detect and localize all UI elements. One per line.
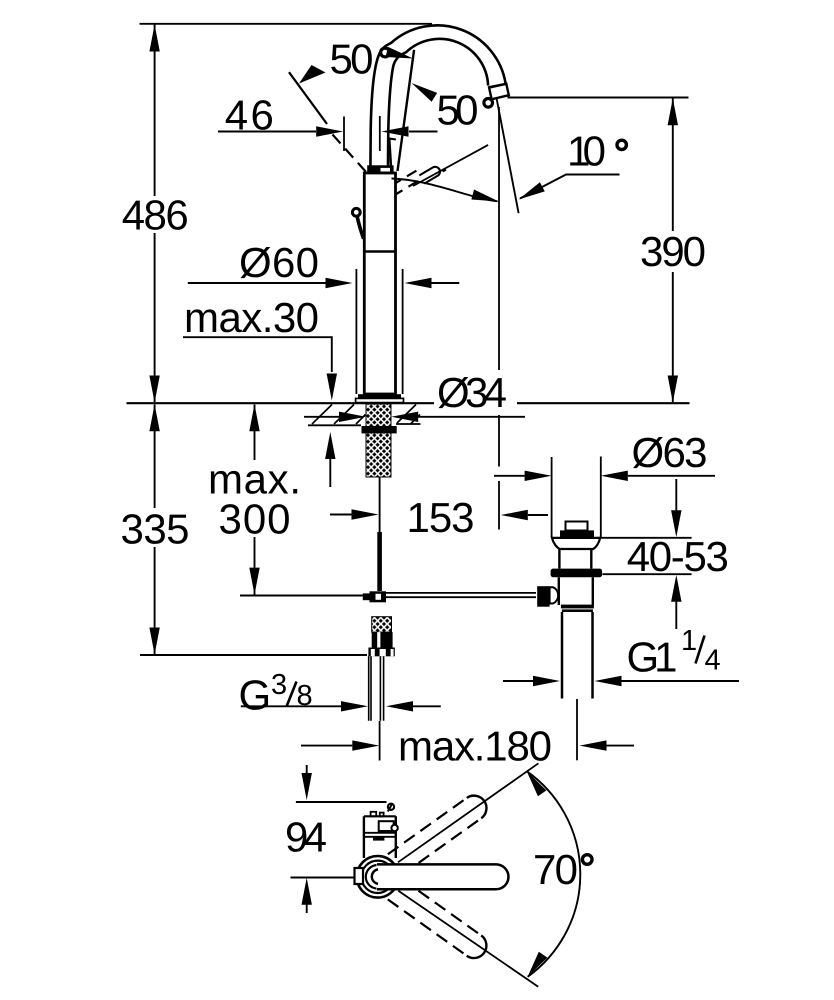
pop-up rod thin upper xyxy=(379,477,381,532)
spout riser tube left edge and outer arc xyxy=(370,25,505,173)
dash dot after tip xyxy=(443,170,446,172)
svg-text:40-53: 40-53 xyxy=(627,533,729,580)
mounting nut xyxy=(362,426,397,433)
body top cap xyxy=(367,165,393,173)
deck hatching left xyxy=(312,405,366,425)
dimension 486 line xyxy=(154,24,156,402)
drain: seal ring xyxy=(551,569,603,578)
dimension 153 xyxy=(330,514,352,516)
94 dimension top arrow xyxy=(306,765,308,775)
lever arm xyxy=(357,217,363,239)
deck hatching right xyxy=(397,405,420,424)
degree ring 70 xyxy=(582,855,592,865)
drain: neck xyxy=(559,549,591,569)
hose 1 xyxy=(369,656,371,720)
inner mechanism xyxy=(379,821,394,831)
outlet centerline xyxy=(498,107,500,530)
deck underside right xyxy=(396,423,421,425)
top extension line xyxy=(140,23,433,25)
max30 lower arrow xyxy=(329,459,331,487)
max300 reference line xyxy=(240,595,363,597)
upper 50 left arc line xyxy=(289,72,327,124)
dashed handle hint right upper edge xyxy=(392,169,421,186)
threaded shank xyxy=(366,404,391,477)
dim60 line xyxy=(188,282,326,284)
drain: lower band 1 xyxy=(561,605,594,609)
handle radius line xyxy=(413,145,488,186)
drain: knob black band xyxy=(560,530,594,537)
drain: side port block xyxy=(537,586,549,607)
spout tip separation line xyxy=(489,84,506,87)
svg-text:335: 335 xyxy=(121,506,190,553)
hose connector base xyxy=(368,648,394,657)
swing arc to outlet xyxy=(392,179,498,202)
svg-text:Ø63: Ø63 xyxy=(632,429,708,476)
rod cross fitting xyxy=(370,591,387,602)
degree ring upper 50 xyxy=(381,48,390,57)
dimension 390 line xyxy=(672,98,674,402)
handle top hook xyxy=(389,139,396,140)
svg-text:1: 1 xyxy=(681,625,697,657)
dashed handle hint right lower edge xyxy=(393,178,423,196)
svg-text:max.180: max.180 xyxy=(398,722,552,769)
hose 2 xyxy=(380,656,383,720)
40-53 upper arrow xyxy=(675,479,677,511)
svg-text:G: G xyxy=(239,672,272,719)
drain: flange xyxy=(552,538,600,549)
dimension max300 line xyxy=(254,405,256,595)
radius line lower xyxy=(398,891,538,987)
aerator tip xyxy=(489,84,509,100)
G 3/8 dim line xyxy=(241,705,341,707)
degree ring 10 xyxy=(617,140,626,149)
drain: lower band 2 xyxy=(562,609,593,612)
handle tilted line B xyxy=(389,138,391,171)
drain: side port inset xyxy=(550,587,559,603)
94 dimension bottom arrow xyxy=(306,904,308,914)
46 tick left xyxy=(343,117,345,152)
body joint line xyxy=(364,250,395,252)
svg-text:G1: G1 xyxy=(627,634,678,681)
10 deg leader xyxy=(520,175,620,199)
water stream line xyxy=(497,99,519,213)
left tab xyxy=(355,868,364,884)
escutcheon circles xyxy=(357,856,399,898)
lever pin curl xyxy=(388,804,394,810)
dimension 335 line xyxy=(154,405,156,655)
drain: pull knob top xyxy=(566,522,588,531)
svg-text:390: 390 xyxy=(640,228,706,275)
svg-text:Ø34: Ø34 xyxy=(437,369,507,416)
dimension max.180 xyxy=(301,745,352,747)
dim63 line xyxy=(494,475,525,477)
svg-text:3: 3 xyxy=(271,669,287,701)
svg-text:4: 4 xyxy=(705,645,721,677)
svg-text:153: 153 xyxy=(407,494,475,541)
390 top reference line xyxy=(508,97,689,99)
svg-text:Ø60: Ø60 xyxy=(239,239,319,286)
hose connector crosshatch block xyxy=(372,617,392,632)
spout riser tube right edge and inner arc xyxy=(388,39,488,173)
46 tick right (centerline) xyxy=(379,116,381,151)
handle dashed down position xyxy=(388,879,492,963)
40-53 lower arrow xyxy=(675,601,677,629)
svg-text:50: 50 xyxy=(437,87,479,134)
deck top line xyxy=(127,402,690,404)
hose connector mid block xyxy=(372,632,393,647)
handle dashed up position xyxy=(388,791,492,875)
outer tube right edge xyxy=(402,269,404,394)
faucet body rectangle xyxy=(364,173,395,394)
max30 leader xyxy=(183,337,332,372)
handle tilted line A xyxy=(398,50,415,171)
dashed handle solid tip xyxy=(419,165,441,184)
94 top reference line xyxy=(296,801,387,803)
drain centerline xyxy=(576,699,578,760)
right 50 arrowhead at handle line xyxy=(409,79,437,102)
svg-text:50: 50 xyxy=(330,36,374,83)
degree ring right 50 xyxy=(484,99,493,108)
svg-text:70: 70 xyxy=(533,846,578,893)
335 bottom reference line xyxy=(140,654,367,656)
svg-text:300: 300 xyxy=(219,496,291,543)
faucet centerline lower xyxy=(379,721,381,761)
40-53 top reference xyxy=(597,537,691,539)
svg-text:max.30: max.30 xyxy=(184,294,319,341)
94 bottom reference line xyxy=(291,877,358,879)
pop-up rod thick xyxy=(377,532,382,591)
upper 50 left arrowhead xyxy=(299,65,326,84)
base black band xyxy=(358,394,401,398)
radius line upper xyxy=(398,763,538,862)
svg-text:486: 486 xyxy=(122,192,189,239)
G1 1/4 dim line xyxy=(503,680,533,682)
upper 50 arrowhead at handle xyxy=(386,47,415,64)
dashed handle hint left xyxy=(333,135,367,173)
outer tube left edge xyxy=(355,269,357,394)
40-53 bottom reference xyxy=(603,573,692,575)
drain tailpipe xyxy=(562,612,593,699)
deck underside left xyxy=(308,424,361,426)
70 deg swing arc xyxy=(527,771,581,977)
svg-text:10: 10 xyxy=(567,128,606,175)
side view body xyxy=(364,816,396,858)
svg-text:94: 94 xyxy=(285,814,327,861)
lever ring xyxy=(352,208,360,216)
dim34 line xyxy=(304,416,339,418)
drain: body xyxy=(559,577,593,605)
base plate xyxy=(356,398,404,402)
handle stadium xyxy=(377,864,508,889)
horizontal pop-up lever rod xyxy=(386,593,536,597)
top notches xyxy=(371,812,377,817)
diam63 ticks xyxy=(552,457,601,538)
handle ball end cap xyxy=(372,869,378,884)
